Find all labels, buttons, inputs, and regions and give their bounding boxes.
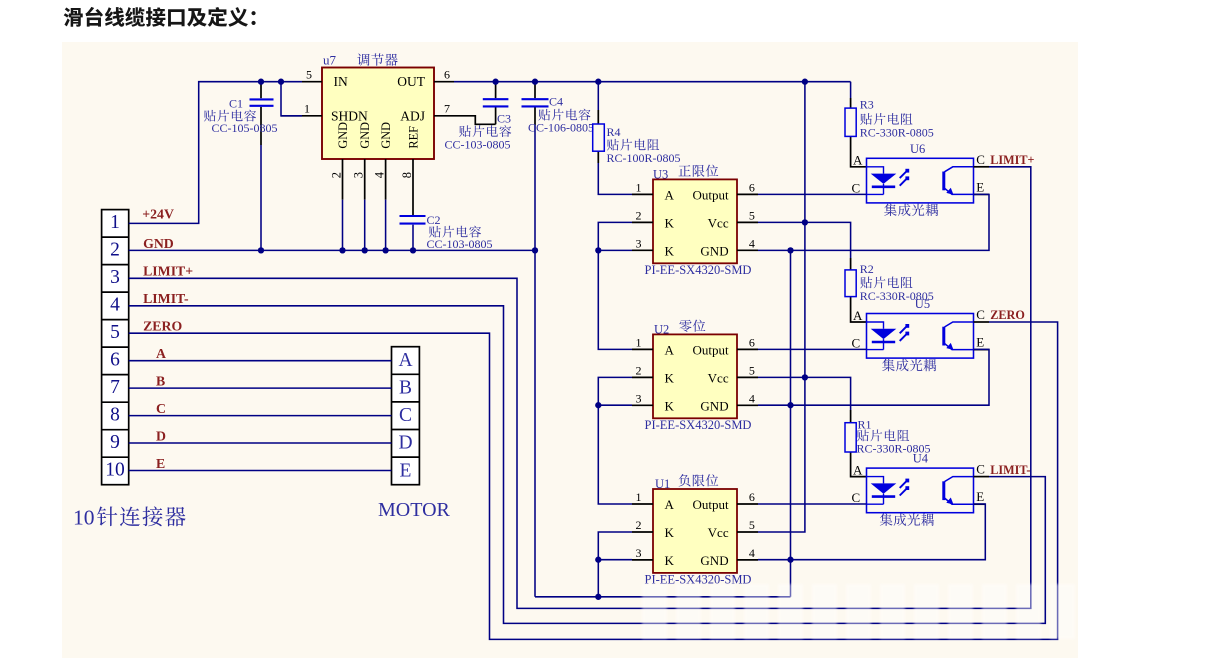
- svg-text:Vcc: Vcc: [708, 525, 729, 540]
- svg-text:CC-106-0805: CC-106-0805: [528, 121, 594, 135]
- svg-text:U3: U3: [653, 167, 668, 181]
- wire node chain U2 to U1 pin1: [598, 405, 632, 504]
- svg-text:U2: U2: [654, 322, 669, 336]
- svg-text:5: 5: [749, 364, 755, 378]
- optocoupler U5 light arrows: [900, 324, 910, 341]
- svg-text:ADJ: ADJ: [400, 108, 425, 123]
- U7 bottom pin 3 stub: [364, 159, 366, 200]
- svg-text:4: 4: [110, 294, 120, 315]
- svg-text:E: E: [156, 456, 165, 471]
- svg-text:C1: C1: [229, 97, 243, 111]
- wire C4 ground drop: [534, 125, 536, 597]
- svg-text:Output: Output: [692, 497, 729, 512]
- svg-text:RC-100R-0805: RC-100R-0805: [607, 151, 681, 165]
- svg-text:Output: Output: [692, 343, 729, 358]
- regulator U7 comment 调节器: [357, 53, 397, 66]
- U7 pin 1 SHDN stub: [281, 115, 322, 117]
- svg-text:A: A: [853, 462, 863, 477]
- svg-text:GND: GND: [143, 236, 174, 251]
- optocoupler U5 collector stub: [974, 321, 990, 323]
- wire ADJ to C3: [454, 116, 496, 125]
- svg-text:1: 1: [636, 490, 642, 504]
- faint watermark: [642, 584, 1075, 639]
- connector MOTOR body: [392, 347, 420, 485]
- capacitor C1 comment 贴片电容: [204, 110, 256, 122]
- junction on GND rail: [595, 247, 601, 253]
- optocoupler U4 comment 集成光耦: [880, 513, 934, 526]
- svg-text:GND: GND: [358, 122, 372, 149]
- svg-text:7: 7: [110, 377, 120, 398]
- svg-text:4: 4: [749, 236, 755, 250]
- wire motor phase C: [129, 415, 392, 417]
- resistor R3 body: [845, 108, 856, 136]
- U7 bottom pin 8 stub: [412, 159, 414, 215]
- optocoupler U4 LED: [867, 477, 897, 505]
- resistor R2 leads: [805, 222, 867, 322]
- svg-text:CC-105-0805: CC-105-0805: [212, 121, 278, 135]
- IC U1 pin 5 stub: [737, 531, 758, 533]
- wire motor phase A: [129, 360, 392, 362]
- svg-text:2: 2: [110, 239, 120, 260]
- svg-text:C: C: [399, 405, 412, 426]
- svg-text:B: B: [156, 373, 165, 388]
- wire U3 pin2 to GND rail: [598, 222, 632, 250]
- junction on VOUT rail: [802, 79, 808, 85]
- junction emitter chain at U3 row: [787, 247, 793, 253]
- wire motor phase E: [129, 470, 392, 472]
- junction on GND rail: [382, 247, 388, 253]
- svg-text:A: A: [156, 346, 166, 361]
- svg-text:B: B: [399, 378, 412, 399]
- svg-text:PI-EE-SX4320-SMD: PI-EE-SX4320-SMD: [645, 418, 752, 432]
- optocoupler U6 LED: [867, 167, 897, 195]
- IC U2 pin 6 stub: [737, 348, 758, 350]
- IC U3 pin 1 stub: [632, 193, 653, 195]
- svg-text:D: D: [156, 428, 166, 443]
- svg-text:E: E: [976, 335, 984, 350]
- schematic sheet: [62, 42, 1078, 658]
- junction on GND rail: [532, 247, 538, 253]
- resistor R1 leads: [805, 377, 867, 476]
- wire U3 output to U6 cathode: [758, 193, 867, 195]
- svg-text:C: C: [976, 307, 985, 322]
- IC U2 pin 1 stub: [632, 348, 653, 350]
- junction Vcc branch U3: [802, 219, 808, 225]
- wire LIMIT- net: [129, 306, 1046, 624]
- svg-text:A: A: [665, 343, 675, 358]
- IC U3 pin 4 stub: [737, 249, 758, 251]
- U7 pin 6 OUT stub: [434, 81, 454, 83]
- wire R4 to U3 pin1: [598, 163, 632, 194]
- optocoupler U6 emitter stub: [974, 193, 990, 195]
- wire U7 pin3 to GND rail: [364, 200, 366, 251]
- svg-text:6: 6: [110, 350, 120, 371]
- svg-text:5: 5: [749, 209, 755, 223]
- svg-text:6: 6: [749, 181, 755, 195]
- capacitor C3 plates: [483, 99, 509, 106]
- capacitor C3 comment 贴片电容: [459, 125, 511, 137]
- wire LIMIT+ net: [129, 167, 1031, 609]
- svg-text:1: 1: [636, 336, 642, 350]
- wire GND rail from J1 pin2: [129, 249, 535, 251]
- svg-text:9: 9: [110, 432, 120, 453]
- svg-text:Output: Output: [692, 188, 729, 203]
- capacitor C1 leads: [260, 82, 262, 251]
- junction on VOUT rail: [532, 79, 538, 85]
- junction U1 pin3 node: [595, 557, 601, 563]
- svg-text:LIMIT+: LIMIT+: [990, 153, 1034, 167]
- svg-text:REF: REF: [406, 126, 420, 149]
- svg-text:C: C: [852, 336, 861, 351]
- optocoupler U6 light arrows: [900, 169, 910, 186]
- wire U2 pin2 down: [598, 377, 632, 405]
- optocoupler U5 comment 集成光耦: [882, 359, 936, 372]
- svg-text:5: 5: [110, 322, 120, 343]
- svg-text:1: 1: [110, 212, 120, 233]
- svg-text:GND: GND: [700, 553, 728, 568]
- IC U2 comment 零位: [679, 320, 705, 332]
- IC U3 pin 2 stub: [632, 221, 653, 223]
- IC U2 pin 4 stub: [737, 404, 758, 406]
- svg-text:6: 6: [749, 336, 755, 350]
- optocoupler U6 collector stub: [974, 166, 990, 168]
- resistor R3 comment 贴片电阻: [860, 113, 912, 125]
- wire emitter chain vertical: [790, 250, 792, 596]
- IC U1 pin 3 stub: [632, 559, 653, 561]
- svg-text:ZERO: ZERO: [990, 308, 1025, 322]
- wire U1 output to U4 cathode: [758, 503, 867, 505]
- IC U3 pin 5 stub: [737, 221, 758, 223]
- svg-text:4: 4: [749, 546, 755, 560]
- resistor R4 comment 贴片电阻: [607, 139, 659, 151]
- svg-text:3: 3: [110, 267, 120, 288]
- IC U2 pin 5 stub: [737, 376, 758, 378]
- IC U1 pin 4 stub: [737, 559, 758, 561]
- optocoupler U4 emitter stub: [974, 503, 986, 505]
- optocoupler U6 body: [867, 158, 974, 203]
- wire U2 output to U5 cathode: [758, 348, 867, 350]
- resistor R4 leads: [597, 82, 599, 163]
- optocoupler U4 body: [867, 468, 974, 513]
- IC U3 pin 3 stub: [632, 249, 653, 251]
- svg-text:4: 4: [749, 391, 755, 405]
- svg-text:IN: IN: [334, 74, 348, 89]
- svg-text:PI-EE-SX4320-SMD: PI-EE-SX4320-SMD: [645, 263, 752, 277]
- svg-text:A: A: [853, 308, 863, 323]
- U7 bottom pin 2 stub: [342, 159, 344, 200]
- resistor R2 body: [845, 270, 856, 297]
- wire SHDN branch: [281, 82, 302, 116]
- svg-text:8: 8: [110, 405, 120, 426]
- svg-text:ZERO: ZERO: [143, 319, 182, 334]
- resistor R4 body: [593, 124, 605, 151]
- svg-text:A: A: [665, 497, 675, 512]
- IC U3 comment 正限位: [679, 165, 719, 177]
- junction Vcc branch U2: [802, 374, 808, 380]
- svg-text:CC-103-0805: CC-103-0805: [427, 237, 493, 251]
- junction bottom chain: [595, 594, 601, 600]
- capacitor C4 leads: [534, 82, 536, 125]
- svg-text:K: K: [665, 244, 675, 259]
- junction U2 pin3 node: [595, 402, 601, 408]
- optocoupler U4 phototransistor: [944, 477, 974, 505]
- svg-text:4: 4: [372, 171, 386, 178]
- optocoupler U5 phototransistor: [944, 322, 974, 350]
- wire U1 pin3 link: [598, 559, 632, 561]
- junction on GND rail: [362, 247, 368, 253]
- wire U3 pin3 link: [598, 249, 632, 251]
- optocoupler U6 phototransistor: [944, 167, 974, 195]
- svg-text:SHDN: SHDN: [331, 108, 368, 123]
- svg-text:CC-103-0805: CC-103-0805: [445, 138, 511, 152]
- wire +24V: J1 pin1 to U7 IN and C1: [129, 82, 302, 224]
- svg-text:K: K: [665, 371, 675, 386]
- svg-text:Vcc: Vcc: [708, 371, 729, 386]
- svg-text:6: 6: [444, 68, 450, 82]
- svg-text:3: 3: [636, 546, 642, 560]
- svg-text:LIMIT+: LIMIT+: [143, 264, 193, 279]
- svg-text:C: C: [156, 401, 166, 416]
- U7 pin 5 IN stub: [302, 81, 322, 83]
- IC U3 pin 6 stub: [737, 193, 758, 195]
- svg-text:2: 2: [329, 172, 343, 178]
- svg-text:GND: GND: [700, 244, 728, 259]
- svg-text:10: 10: [73, 506, 95, 530]
- resistor R2 comment 贴片电阻: [860, 277, 912, 289]
- capacitor C2 plates: [400, 216, 426, 224]
- svg-text:LIMIT-: LIMIT-: [143, 291, 189, 306]
- svg-text:A: A: [665, 188, 675, 203]
- svg-text:LIMIT-: LIMIT-: [990, 463, 1030, 477]
- IC U1 body: [653, 489, 737, 573]
- svg-text:GND: GND: [379, 122, 393, 149]
- svg-text:E: E: [976, 489, 984, 504]
- svg-text:U5: U5: [915, 297, 930, 311]
- svg-text:10: 10: [105, 460, 125, 481]
- capacitor C4 comment 贴片电容: [538, 109, 590, 121]
- svg-text:3: 3: [636, 236, 642, 250]
- wire U1 pin4 / U4 emitter return: [758, 504, 985, 560]
- svg-text:K: K: [665, 525, 675, 540]
- page title 滑台线缆接口及定义：: [64, 7, 256, 27]
- optocoupler U6 comment 集成光耦: [884, 204, 938, 217]
- svg-text:E: E: [976, 179, 984, 194]
- svg-text:R2: R2: [860, 262, 874, 276]
- svg-text:C2: C2: [427, 213, 441, 227]
- resistor R3 leads: [851, 82, 867, 167]
- IC U1 pin 2 stub: [632, 531, 653, 533]
- optocoupler U5 emitter stub: [974, 349, 990, 351]
- svg-text:C4: C4: [549, 95, 563, 109]
- wire ZERO net: [129, 322, 1058, 639]
- junction on VOUT rail: [492, 79, 498, 85]
- connector J1 10针连接器 body: [102, 210, 129, 485]
- wire motor phase B: [129, 387, 392, 389]
- junction on VOUT rail: [595, 79, 601, 85]
- wire VOUT rail from U7 OUT: [454, 81, 851, 83]
- wire Vcc branch to U2 pin5: [758, 376, 805, 378]
- svg-text:OUT: OUT: [397, 74, 425, 89]
- svg-text:K: K: [665, 216, 675, 231]
- junction emitter chain at U2 row: [787, 402, 793, 408]
- svg-text:U1: U1: [655, 477, 670, 491]
- svg-text:RC-330R-0805: RC-330R-0805: [860, 125, 934, 139]
- capacitor C2 bottom lead: [412, 225, 414, 251]
- svg-text:C: C: [852, 180, 861, 195]
- IC U2 pin 3 stub: [632, 404, 653, 406]
- svg-text:E: E: [400, 460, 412, 481]
- wire motor phase D: [129, 442, 392, 444]
- junction on IN wire at C1: [258, 79, 264, 85]
- svg-text:D: D: [398, 433, 412, 454]
- svg-text:C: C: [976, 152, 985, 167]
- capacitor C2 comment 贴片电容: [429, 226, 481, 238]
- regulator U7 body: [322, 68, 434, 160]
- svg-text:2: 2: [636, 364, 642, 378]
- optocoupler U4 collector stub: [974, 476, 990, 478]
- wire bottom chain horizontal: [535, 596, 791, 598]
- svg-text:K: K: [665, 399, 675, 414]
- capacitor C1 plates: [250, 99, 274, 105]
- svg-text:K: K: [665, 553, 675, 568]
- svg-text:Vcc: Vcc: [708, 216, 729, 231]
- U7 pin 7 ADJ stub: [434, 115, 454, 117]
- svg-text:7: 7: [444, 102, 450, 116]
- resistor R1 comment 贴片电阻: [857, 430, 909, 442]
- svg-text:U6: U6: [910, 142, 925, 156]
- IC U3 body: [653, 179, 737, 263]
- svg-text:3: 3: [636, 391, 642, 405]
- svg-text:5: 5: [749, 518, 755, 532]
- wire U7 pin2 to GND rail: [342, 200, 344, 251]
- svg-text:MOTOR: MOTOR: [378, 499, 451, 521]
- svg-text:6: 6: [749, 490, 755, 504]
- wire U3 pin4 / U6 emitter return: [758, 194, 989, 250]
- svg-text:GND: GND: [700, 399, 728, 414]
- resistor R1 body: [845, 423, 856, 452]
- svg-text:1: 1: [304, 102, 310, 116]
- svg-text:A: A: [398, 350, 412, 371]
- svg-text:3: 3: [352, 172, 366, 178]
- svg-text:8: 8: [400, 172, 414, 178]
- svg-text:5: 5: [306, 68, 312, 82]
- optocoupler U5 LED: [867, 322, 897, 350]
- IC U2 pin 2 stub: [632, 376, 653, 378]
- svg-text:GND: GND: [336, 122, 350, 149]
- svg-text:C3: C3: [497, 112, 511, 126]
- junction on GND rail: [410, 247, 416, 253]
- wire Vcc bus vertical: [758, 82, 805, 532]
- junction emitter chain at U1 row: [787, 557, 793, 563]
- IC U1 pin 1 stub: [632, 503, 653, 505]
- svg-text:+24V: +24V: [142, 206, 174, 221]
- optocoupler U5 body: [867, 314, 974, 359]
- junction on GND rail: [339, 247, 345, 253]
- IC U1 pin 6 stub: [737, 503, 758, 505]
- svg-text:1: 1: [636, 181, 642, 195]
- svg-text:R4: R4: [607, 125, 621, 139]
- wire node chain U3 to U2 pin1: [598, 250, 632, 349]
- svg-text:2: 2: [636, 209, 642, 223]
- wire U1 pin2 to bottom chain: [597, 560, 599, 597]
- svg-text:R1: R1: [858, 417, 872, 431]
- junction on GND rail: [258, 247, 264, 253]
- IC U1 comment 负限位: [679, 474, 719, 486]
- svg-text:U4: U4: [913, 452, 929, 466]
- wire U7 pin4 to GND rail: [385, 200, 387, 251]
- capacitor C4 plates: [522, 99, 549, 106]
- svg-text:2: 2: [636, 518, 642, 532]
- svg-text:C: C: [976, 462, 985, 477]
- wire U2 pin3 link: [598, 404, 632, 406]
- svg-text:A: A: [853, 153, 863, 168]
- wire Vcc branch to U3 pin5: [758, 221, 805, 223]
- svg-text:R3: R3: [860, 98, 874, 112]
- optocoupler U4 light arrows: [900, 479, 910, 496]
- U7 bottom pin 4 stub: [385, 159, 387, 200]
- svg-text:u7: u7: [323, 53, 337, 68]
- wire U2 pin4 / U5 emitter return: [758, 349, 989, 405]
- svg-text:C: C: [852, 490, 861, 505]
- wire U1 pin2 down: [598, 532, 632, 560]
- junction on IN wire at SHDN branch: [278, 79, 284, 85]
- IC U2 body: [653, 334, 737, 418]
- capacitor C3 leads: [495, 82, 497, 125]
